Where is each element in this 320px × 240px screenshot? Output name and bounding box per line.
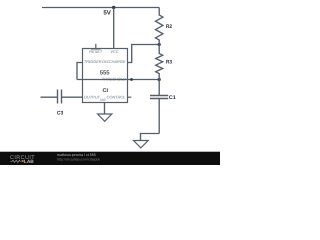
svg-text:TRIGGER: TRIGGER: [84, 59, 102, 64]
capacitor C1: [150, 80, 168, 134]
resistor R2: [156, 8, 163, 45]
IC U1 555 chip body: [83, 49, 128, 103]
node junction dot at VCC rail: [112, 6, 115, 9]
pin CONTROL stub: [128, 96, 132, 98]
wire C1 to ground: [141, 134, 160, 141]
svg-text:C1: C1: [169, 95, 176, 101]
resistor R3: [156, 45, 163, 80]
node junction dot R2/R3: [158, 43, 161, 46]
svg-text:5V: 5V: [103, 9, 111, 16]
wire DISCHARGE to R2/R3 junction: [128, 45, 160, 63]
wire VCC vertical: [113, 8, 115, 49]
svg-text:OUTPUT: OUTPUT: [84, 94, 101, 99]
svg-text:LAB: LAB: [24, 159, 34, 165]
svg-text:GND: GND: [100, 98, 106, 102]
wire 5V rail: [42, 7, 159, 9]
svg-text:CI: CI: [103, 88, 109, 94]
ground (right, below C1): [134, 141, 149, 148]
pin RESET stub: [95, 44, 97, 49]
svg-text:VCC: VCC: [110, 49, 118, 54]
svg-text:C3: C3: [57, 111, 64, 117]
wire TRIGGER hook: [77, 63, 83, 80]
logo resistor squiggle: [10, 160, 21, 162]
footer bar: [0, 152, 220, 165]
wire THRESHOLD crossing wire: [77, 79, 159, 81]
svg-text:CONTROL: CONTROL: [107, 94, 126, 99]
ground (below chip): [98, 114, 112, 121]
capacitor C3: [41, 90, 83, 104]
svg-text:R2: R2: [166, 24, 172, 30]
node junction dot at R3/C1: [158, 78, 161, 81]
svg-text:555: 555: [100, 69, 111, 76]
svg-text:R3: R3: [166, 59, 172, 65]
svg-text:DISCHARGE: DISCHARGE: [102, 59, 126, 64]
pin label RESET (with overline): [89, 49, 103, 54]
node junction dot at THRESHOLD pin: [130, 78, 133, 81]
svg-text:http://circuitlab.com/c/5sp0v: http://circuitlab.com/c/5sp0v: [57, 157, 100, 161]
wire GND pin stem: [104, 103, 106, 115]
logo orange mark: [22, 160, 24, 162]
